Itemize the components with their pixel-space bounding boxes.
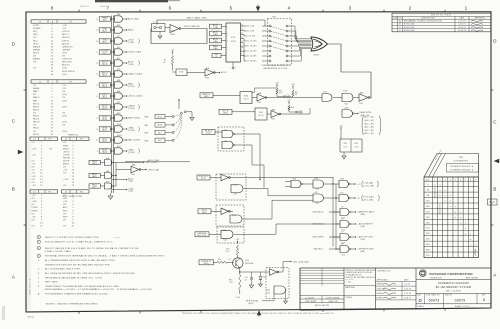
svg-text:1K: 1K: [163, 62, 165, 64]
svg-text:TB1: TB1: [272, 17, 276, 19]
connector J2 pin table header and rows: [31, 80, 86, 83]
one-shot input label MEMCLK: [200, 93, 213, 98]
decoder output 2: [241, 33, 245, 35]
svg-text:(12A): (12A): [129, 41, 134, 44]
svg-text:7408: 7408: [223, 240, 227, 242]
svg-text:E1B: E1B: [117, 25, 121, 27]
svg-text:+MEMORY GATE: +MEMORY GATE: [358, 210, 375, 213]
border zone ticks left: [24, 89, 26, 91]
svg-text:12-10-74: 12-10-74: [458, 30, 467, 32]
svg-text:7404: 7404: [271, 119, 275, 121]
svg-text:R1: R1: [164, 60, 166, 62]
svg-text:3: 3: [227, 34, 228, 36]
resistor R57: [236, 245, 238, 255]
svg-text:X1: X1: [153, 22, 155, 24]
svg-text:52K: 52K: [426, 255, 430, 257]
nand E11B: [230, 215, 242, 223]
svg-text:+24V: +24V: [63, 179, 69, 181]
svg-text:A: A: [493, 273, 496, 278]
svg-text:25: 25: [96, 63, 98, 65]
svg-text:29: 29: [96, 41, 98, 43]
svg-text:NEW JERSEY: NEW JERSEY: [466, 277, 479, 279]
svg-text:-5V: -5V: [32, 164, 36, 166]
svg-text:B: B: [493, 187, 496, 192]
svg-text:MEMW: MEMW: [33, 46, 40, 48]
notes block: [37, 235, 40, 238]
svg-text:+MD11 (12B4): +MD11 (12B4): [128, 96, 143, 98]
svg-text:RF RQS: RF RQS: [205, 131, 212, 133]
svg-text:FOR ASSEMBLY DRAWING SEE DRAWI: FOR ASSEMBLY DRAWING SEE DRAWING NO. A-9…: [45, 293, 108, 296]
svg-text:SPARE: SPARE: [33, 27, 41, 30]
svg-text:OV: OV: [62, 125, 66, 127]
svg-text:MOD CONNECTIONS: MOD CONNECTIONS: [63, 196, 83, 198]
svg-text:RETURN: RETURN: [62, 62, 72, 64]
svg-text:▲ 50473: ▲ 50473: [305, 296, 314, 299]
svg-text:(7A6) ADD4: (7A6) ADD4: [312, 223, 323, 226]
title block frame: [300, 268, 491, 310]
TB1 grid rows: [424, 180, 479, 182]
inverter A8A: [116, 169, 131, 171]
svg-text:OV: OV: [63, 226, 67, 228]
svg-text:+5V: +5V: [291, 84, 295, 86]
svg-text:CHECKED: CHECKED: [377, 288, 387, 290]
svg-text:-15V: -15V: [32, 148, 38, 150]
svg-text:4.: 4.: [38, 269, 40, 271]
svg-text:470: 470: [279, 93, 282, 95]
svg-text:OV: OV: [63, 213, 67, 215]
nand E11A: [231, 185, 243, 193]
svg-text:(SHLD): (SHLD): [62, 37, 70, 39]
inverter A4A: [359, 94, 368, 102]
svg-text:31: 31: [96, 30, 98, 32]
svg-text:+5V: +5V: [236, 239, 240, 241]
svg-text:IRQ: IRQ: [33, 31, 37, 33]
svg-text:E1B: E1B: [180, 71, 184, 73]
scan smudge top edge: [95, 0, 168, 2]
svg-text:4: 4: [288, 5, 291, 10]
inverter A6B: [267, 113, 271, 115]
svg-text:NOTES : UNLESS OTHERWISE SPECI: NOTES : UNLESS OTHERWISE SPECIFIED: [46, 303, 98, 305]
svg-text:SELECT VALUES FOR 400,470 AND: SELECT VALUES FOR 400,470 AND 430 TO DET…: [45, 247, 139, 250]
jumper dashed links: [271, 26, 286, 30]
svg-text:74C6: 74C6: [315, 189, 319, 191]
svg-text:R E V I S I O N S: R E V I S I O N S: [431, 15, 451, 17]
svg-text:5: 5: [230, 5, 233, 10]
decoder input label AD14: [210, 24, 222, 29]
svg-text:MBLG: MBLG: [33, 97, 40, 99]
svg-text:32K: 32K: [426, 228, 430, 230]
svg-text:SHEET 1 OF 2: SHEET 1 OF 2: [455, 306, 470, 308]
svg-text:2: 2: [113, 17, 114, 19]
svg-text:74C6: 74C6: [315, 203, 319, 205]
svg-text:IRQ2: IRQ2: [33, 43, 39, 45]
svg-text:4: 4: [450, 179, 451, 181]
svg-text:CH: CH: [33, 56, 37, 58]
svg-text:DP: DP: [33, 94, 37, 96]
buffer in E11 box: [221, 174, 229, 181]
svg-text:OV: OV: [63, 204, 67, 206]
wire vertical riser x252: [251, 145, 253, 165]
svg-text:74123: 74123: [243, 99, 248, 101]
svg-text:E7: E7: [342, 232, 344, 234]
inverter in E4A box: [266, 271, 270, 273]
memory timing gate chain row 1: [285, 181, 291, 183]
svg-text:-ADD2 (15A): -ADD2 (15A): [147, 159, 159, 162]
svg-text:OV: OV: [32, 179, 36, 181]
svg-text:6.: 6.: [38, 286, 40, 288]
svg-text:HDD7: HDD7: [33, 116, 40, 118]
output +REF: [141, 169, 146, 171]
svg-text:WAIT: WAIT: [33, 90, 39, 93]
pullup resistor R1: [172, 52, 174, 54]
svg-text:9: 9: [97, 151, 98, 153]
svg-text:E4B: E4B: [223, 230, 226, 232]
svg-text:(7B6): (7B6): [129, 64, 134, 66]
svg-text:+MA13,+MA15, SMD: +MA13,+MA15, SMD: [186, 17, 207, 20]
svg-text:MCLK: MCLK: [221, 72, 227, 74]
resistor R58: [239, 275, 241, 291]
svg-text:74C4: 74C4: [359, 103, 363, 105]
svg-text:RELEASED TO MFG. PRODUCTION: RELEASED TO MFG. PRODUCTION: [404, 20, 442, 23]
svg-text:ALL CR/BE NETWORKS NOTE: ALL CR/BE NETWORKS NOTED CRM 4N50/6N823+…: [45, 272, 135, 275]
svg-text:OV: OV: [32, 226, 36, 228]
or-gate E14 T8400: [311, 37, 328, 51]
svg-text:8: 8: [51, 5, 54, 10]
svg-text:10: 10: [241, 45, 243, 47]
svg-text:3: 3: [445, 179, 446, 181]
svg-text:(11B4): (11B4): [129, 130, 135, 132]
svg-text:+5V: +5V: [32, 185, 37, 187]
svg-text:-15V: -15V: [236, 297, 241, 299]
svg-text:1K: 1K: [229, 259, 231, 261]
svg-text:2: 2: [113, 105, 114, 107]
svg-text:E3C: E3C: [341, 192, 344, 194]
refresh request input label: [202, 130, 215, 135]
svg-text:+TL: +TL: [357, 198, 361, 200]
svg-text:MSD2: MSD2: [92, 161, 97, 163]
jumper common ground: [190, 118, 194, 121]
svg-text:3: 3: [349, 5, 352, 10]
svg-text:C: C: [493, 120, 496, 125]
svg-text:(1B4): (1B4): [213, 41, 218, 43]
dashed box E5 gates: [218, 127, 244, 151]
svg-text:8K-18A MEMORY SYSTEM: 8K-18A MEMORY SYSTEM: [436, 286, 471, 289]
svg-text:HDD1: HDD1: [33, 128, 40, 130]
svg-text:+5V: +5V: [63, 170, 68, 172]
svg-text:20K: 20K: [426, 211, 430, 213]
nand E5A: [222, 130, 233, 138]
svg-text:OV: OV: [33, 125, 37, 127]
TB1 grid columns: [432, 177, 434, 258]
svg-text:AD13: AD13: [128, 61, 134, 64]
svg-text:12: 12: [241, 37, 243, 39]
svg-text:+ADD MEMORY: +ADD MEMORY: [358, 222, 374, 225]
svg-text:86201: 86201: [28, 317, 36, 319]
svg-text:2-4-74: 2-4-74: [404, 284, 410, 286]
TB1 grid body: [424, 177, 479, 258]
svg-text:(24V MEMORY): (24V MEMORY): [454, 161, 469, 163]
svg-text:J1: J1: [39, 21, 41, 23]
svg-text:2: 2: [409, 5, 412, 10]
svg-text:P5: P5: [49, 191, 52, 193]
svg-text:+MA8: +MA8: [128, 127, 134, 130]
center alignment arrow bottom: [258, 314, 260, 317]
svg-text:+5V: +5V: [275, 82, 279, 84]
scale sheet row: [416, 303, 491, 305]
svg-text:HDD4: HDD4: [33, 103, 40, 105]
svg-text:RDLG: RDLG: [33, 52, 40, 54]
svg-text:8: 8: [241, 54, 242, 56]
svg-text:A.: A.: [38, 293, 41, 296]
dashed box E4B: [217, 227, 244, 243]
svg-text:VDDR: VDDR: [63, 161, 70, 163]
svg-text:ENBL: ENBL: [213, 46, 218, 48]
svg-text:(0) 0-4K: (0) 0-4K: [247, 26, 256, 28]
svg-text:4.7K: 4.7K: [226, 251, 230, 253]
svg-text:13: 13: [96, 129, 98, 131]
connector J1 pin table header and rows: [31, 20, 86, 23]
svg-text:13: 13: [241, 33, 243, 35]
svg-text:OV: OV: [33, 85, 37, 87]
svg-text:OV: OV: [62, 97, 66, 99]
svg-text:1: 1: [227, 27, 228, 29]
svg-text:+RDLD: +RDLD: [62, 31, 70, 33]
center alignment arrow top: [257, 5, 259, 8]
svg-text:(11B4): (11B4): [129, 152, 135, 154]
svg-text:PWRS IN: PWRS IN: [68, 135, 78, 137]
decoder input label AD15: [210, 31, 222, 36]
svg-text:E1D: E1D: [324, 92, 327, 94]
svg-text:+5V: +5V: [32, 195, 37, 197]
svg-text:6: 6: [460, 179, 461, 181]
svg-text:E11B: E11B: [232, 215, 236, 217]
svg-text:HA7: HA7: [33, 99, 38, 102]
svg-text:PRINTED ON DIEPO NO 1000H CLEA: PRINTED ON DIEPO NO 1000H CLEARPRINT FAD…: [182, 312, 334, 315]
application block: [300, 295, 344, 297]
svg-text:+5V: +5V: [32, 154, 37, 156]
svg-text:ADD13: ADD13: [62, 64, 70, 67]
svg-text:+MA10: +MA10: [128, 105, 135, 108]
revision table header row: [392, 18, 491, 20]
revision table title row: [392, 15, 491, 17]
TB1 jumper dashed outline: [267, 19, 291, 65]
svg-text:74C6: 74C6: [341, 254, 345, 256]
svg-text:+5V: +5V: [287, 99, 291, 101]
svg-text:4.7K: 4.7K: [344, 147, 348, 149]
svg-text:23: 23: [96, 74, 98, 76]
revision table frame: [392, 13, 491, 32]
svg-text:(OV): (OV): [62, 122, 67, 124]
svg-text:(OV): (OV): [62, 68, 67, 70]
svg-text:HDSW: HDSW: [63, 157, 70, 159]
msd buffer row E6C (MSD1): [89, 184, 100, 188]
svg-text:TPWT: TPWT: [33, 25, 40, 27]
svg-text:6-20-74: 6-20-74: [458, 27, 465, 29]
svg-text:(12B): (12B): [128, 191, 133, 193]
svg-text:2: 2: [113, 61, 114, 63]
svg-text:READ MTRL: READ MTRL: [360, 111, 372, 114]
svg-text:P1: P1: [70, 21, 73, 23]
svg-text:HOD1: HOD1: [33, 134, 40, 136]
svg-text:OV: OV: [32, 182, 36, 184]
svg-text:33: 33: [96, 19, 98, 21]
svg-text:OV: OV: [32, 213, 36, 215]
svg-text:APPLICATION: APPLICATION: [315, 304, 330, 307]
svg-text:OV: OV: [32, 161, 36, 163]
svg-text:+E2B: +E2B: [344, 108, 348, 110]
svg-text:CH1 (10A,12A): CH1 (10A,12A): [293, 260, 309, 263]
one-shot E3B 74123: [255, 108, 267, 120]
svg-text:SCALE: SCALE: [418, 305, 425, 308]
svg-text:2: 2: [113, 50, 114, 52]
svg-text:PWRDN IN: PWRDN IN: [201, 261, 211, 263]
svg-text:+MDS (11B4): +MDS (11B4): [128, 52, 142, 54]
svg-text:2: 2: [113, 127, 114, 129]
one-shot E3A 74123: [240, 92, 252, 104]
svg-text:OV: OV: [32, 198, 36, 200]
jumper TB1 right post circles: [286, 25, 288, 27]
svg-text:MSD0: MSD0: [92, 174, 97, 176]
one-shot E3A timing RC: [276, 85, 278, 87]
svg-text:2: 2: [113, 28, 114, 30]
svg-text:+MSD: +MSD: [63, 151, 70, 153]
E4A output ground: [285, 290, 287, 299]
svg-text:-MEMCLK: -MEMCLK: [62, 46, 73, 48]
one-shot E3B timing RC: [288, 102, 290, 104]
address input bus wires: [110, 16, 112, 194]
svg-text:50473: 50473: [429, 298, 440, 302]
svg-text:-OV: -OV: [62, 28, 67, 30]
svg-text:03079 D: 03079 D: [80, 6, 89, 8]
svg-text:(OV): (OV): [62, 100, 67, 102]
svg-text:2-13-74: 2-13-74: [404, 293, 411, 295]
svg-text:(OV): (OV): [62, 52, 67, 54]
svg-text:(OV): (OV): [62, 94, 67, 96]
svg-text:5: 5: [455, 179, 456, 181]
svg-text:NEXT ASSY: NEXT ASSY: [305, 300, 317, 303]
svg-text:C: C: [12, 119, 15, 124]
svg-text:MICROFARADS = ±75,80% , 4.7 MI: MICROFARADS = ±75,80% , 4.7 MICROFARADS …: [45, 288, 153, 291]
svg-text:(7CB): (7CB): [360, 239, 366, 241]
svg-text:7408: 7408: [267, 292, 271, 294]
svg-text:19: 19: [96, 96, 98, 98]
svg-text:A: A: [12, 275, 15, 280]
msd buffer row E6A (MSD2): [89, 160, 100, 164]
svg-text:RESISTANCE VALUES ARE IN OHMS: RESISTANCE VALUES ARE IN OHMS ±5% , 1/4 …: [45, 276, 103, 279]
svg-text:12K: 12K: [426, 200, 430, 202]
decoder output 5: [241, 46, 245, 48]
svg-text:E9B: E9B: [117, 91, 121, 93]
svg-text:OV: OV: [32, 219, 36, 221]
nand E2B: [342, 110, 353, 118]
long wire power-up to output rows: [234, 177, 334, 179]
inverter A6A: [252, 97, 257, 99]
svg-text:HDD3: HDD3: [33, 106, 40, 108]
svg-text:+5V: +5V: [339, 125, 343, 127]
svg-text:E3B: E3B: [341, 178, 344, 180]
svg-text:B: B: [12, 187, 15, 192]
svg-text:MEMG: MEMG: [33, 59, 40, 61]
svg-text:15: 15: [96, 118, 98, 120]
svg-text:PRINCETON: PRINCETON: [431, 277, 443, 279]
svg-text:DESCRIPTION: DESCRIPTION: [421, 18, 435, 20]
svg-text:P4: P4: [80, 139, 83, 141]
jumper plug X1: [152, 24, 166, 32]
svg-text:OV: OV: [32, 167, 36, 169]
svg-text:0: 0: [427, 184, 428, 186]
svg-text:E3B: E3B: [259, 112, 263, 114]
svg-text:DWG NO.: DWG NO.: [445, 294, 453, 296]
svg-text:8: 8: [470, 179, 471, 181]
svg-text:P6: P6: [80, 191, 83, 193]
svg-text:T8400: T8400: [313, 55, 319, 57]
decoder output 0: [241, 25, 245, 27]
svg-text:(P03): (P03): [201, 178, 206, 180]
svg-text:7404: 7404: [131, 174, 135, 176]
svg-text:16K: 16K: [426, 206, 430, 208]
svg-text:7: 7: [107, 5, 110, 10]
wire or-gate feedback loop: [328, 44, 371, 98]
svg-text:CODE IDENT NO.: CODE IDENT NO.: [426, 294, 441, 296]
svg-text:5: 5: [227, 41, 228, 43]
svg-text:MSD2: MSD2: [63, 148, 70, 150]
border zone ticks right: [491, 89, 493, 91]
nand E2A 7400: [342, 93, 353, 102]
svg-text:4.7K: 4.7K: [355, 147, 359, 149]
size and number row: [416, 293, 491, 295]
svg-text:(OHG): (OHG): [62, 40, 69, 42]
revision table data rows: [392, 21, 491, 23]
svg-text:7: 7: [227, 48, 228, 50]
svg-text:(4K x 12-BIT): (4K x 12-BIT): [446, 291, 461, 293]
svg-text:WRITE: WRITE: [201, 210, 207, 212]
svg-text:7: 7: [465, 179, 466, 181]
svg-text:9: 9: [235, 68, 236, 70]
svg-text:OV: OV: [63, 185, 67, 187]
svg-text:14: 14: [241, 29, 243, 31]
collector wire down: [239, 268, 241, 272]
decoder IC E13 8T380: [226, 23, 241, 62]
svg-text:▪ ▪ ▪ ▪: ▪ ▪ ▪ ▪: [114, 238, 120, 240]
wire osc output: [181, 28, 207, 30]
svg-text:JUMPERS ARE SHOWN FOR: JUMPERS ARE SHOWN FOR: [262, 64, 291, 67]
svg-text:5-28-74: 5-28-74: [458, 24, 465, 26]
border zone ticks top: [78, 10, 80, 12]
svg-text:SCHEMATIC DIAGRAM: SCHEMATIC DIAGRAM: [438, 282, 469, 285]
svg-text:(7A6) REFS: (7A6) REFS: [312, 236, 324, 239]
svg-text:(4) 16-20K: (4) 16-20K: [247, 46, 258, 48]
svg-text:(7A6) A13: (7A6) A13: [313, 248, 322, 251]
svg-text:X AND Y DRIVE LINES.: X AND Y DRIVE LINES.: [45, 250, 72, 253]
output ADD1: [112, 179, 126, 181]
svg-text:48K: 48K: [426, 250, 430, 252]
svg-text:(3) 12-16K: (3) 12-16K: [247, 41, 258, 43]
decoder output 7: [241, 54, 245, 56]
decoder input label AD16: [210, 38, 222, 43]
svg-text:D: D: [12, 42, 15, 47]
capacitor C14: [251, 272, 253, 278]
transistor Q1B 2N2904A: [233, 258, 243, 268]
svg-text:+TL: +TL: [357, 184, 361, 186]
svg-text:(2) 8-12K: (2) 8-12K: [247, 36, 257, 38]
dashed box E4A comparator: [266, 268, 289, 299]
svg-text:RD2: RD2: [33, 40, 38, 42]
border zone ticks bottom: [78, 311, 80, 313]
svg-text:2: 2: [113, 94, 114, 96]
svg-text:+5V: +5V: [32, 176, 37, 178]
svg-text:(OV): (OV): [62, 106, 67, 108]
refresh req input label: [195, 232, 209, 237]
